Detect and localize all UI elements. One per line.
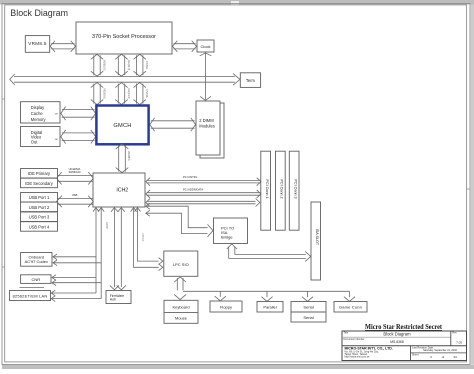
svg-text:266MB/S: 266MB/S bbox=[127, 151, 129, 161]
svg-text:VRM8.5: VRM8.5 bbox=[28, 41, 47, 46]
svg-text:370-Pin Socket Processor: 370-Pin Socket Processor bbox=[92, 34, 156, 40]
svg-text:Title: Title bbox=[344, 332, 349, 335]
svg-text:HA[31:3]: HA[31:3] bbox=[127, 89, 131, 99]
svg-text:CNTRL: CNTRL bbox=[145, 89, 149, 98]
svg-text:USB Port 3: USB Port 3 bbox=[29, 215, 50, 220]
svg-text:7.05: 7.05 bbox=[456, 340, 462, 344]
svg-text:2 DIMM: 2 DIMM bbox=[199, 118, 214, 123]
svg-text:ISA SLOT: ISA SLOT bbox=[315, 229, 319, 246]
svg-text:MS-6368: MS-6368 bbox=[390, 340, 404, 344]
svg-text:Modules: Modules bbox=[199, 124, 214, 129]
svg-text:of: of bbox=[442, 355, 445, 359]
svg-text:PCI Conn 2: PCI Conn 2 bbox=[280, 179, 284, 198]
svg-text:IDE Primary: IDE Primary bbox=[28, 171, 51, 176]
svg-text:http://www.msi.com.tw: http://www.msi.com.tw bbox=[345, 356, 370, 359]
svg-text:IDE Secondary: IDE Secondary bbox=[25, 181, 53, 186]
svg-text:Saturday, September 21, 2002: Saturday, September 21, 2002 bbox=[423, 349, 457, 352]
svg-text:82562ET/EM LAN: 82562ET/EM LAN bbox=[12, 293, 47, 298]
svg-text:AC'97 Codec: AC'97 Codec bbox=[25, 259, 48, 264]
svg-text:ICH2: ICH2 bbox=[116, 188, 128, 194]
svg-text:1M: 1M bbox=[55, 114, 58, 116]
svg-text:Parallel: Parallel bbox=[263, 305, 276, 310]
svg-text:Out: Out bbox=[31, 139, 38, 144]
svg-text:HA[31:3]: HA[31:3] bbox=[127, 60, 131, 70]
svg-text:Mouse: Mouse bbox=[175, 316, 188, 321]
svg-text:LPC SIO: LPC SIO bbox=[173, 262, 189, 267]
svg-text:Memory: Memory bbox=[31, 117, 47, 122]
svg-text:Block Diagram: Block Diagram bbox=[383, 332, 411, 337]
svg-text:CNR: CNR bbox=[31, 277, 40, 282]
svg-text:Block Diagram: Block Diagram bbox=[10, 8, 68, 18]
svg-text:PCI CNTRL: PCI CNTRL bbox=[183, 175, 198, 179]
svg-text:Sheet: Sheet bbox=[412, 353, 419, 356]
svg-text:LPC I/F: LPC I/F bbox=[141, 233, 144, 242]
svg-text:1M: 1M bbox=[55, 139, 58, 141]
svg-text:PCI Conn 3: PCI Conn 3 bbox=[293, 179, 297, 198]
svg-text:Keyboard: Keyboard bbox=[172, 304, 189, 309]
svg-text:PCI Conn 1: PCI Conn 1 bbox=[265, 179, 269, 198]
svg-text:Display: Display bbox=[31, 105, 45, 110]
svg-text:Game Conn: Game Conn bbox=[339, 305, 362, 310]
svg-text:PCI ADDR/DATA: PCI ADDR/DATA bbox=[183, 188, 203, 192]
svg-text:33/66/100: 33/66/100 bbox=[69, 170, 81, 174]
svg-text:Floppy: Floppy bbox=[220, 304, 232, 309]
svg-text:Bridge: Bridge bbox=[221, 235, 233, 240]
svg-text:Clock: Clock bbox=[200, 44, 210, 49]
svg-text:USB: USB bbox=[72, 193, 78, 197]
svg-text:Serial: Serial bbox=[303, 305, 313, 310]
svg-text:Document Number: Document Number bbox=[344, 338, 365, 341]
svg-text:Cache: Cache bbox=[31, 111, 44, 116]
svg-text:USB Port 1: USB Port 1 bbox=[29, 195, 50, 200]
svg-text:USB Port 2: USB Port 2 bbox=[29, 205, 50, 210]
svg-text:34: 34 bbox=[453, 355, 457, 359]
svg-text:HD[63:0]: HD[63:0] bbox=[102, 60, 106, 71]
svg-text:Term: Term bbox=[246, 78, 256, 83]
svg-text:AC'97: AC'97 bbox=[105, 222, 108, 229]
svg-text:Hub: Hub bbox=[110, 298, 116, 302]
svg-text:GMCH: GMCH bbox=[113, 123, 131, 129]
svg-text:Rev: Rev bbox=[452, 332, 457, 335]
svg-text:HD[63:0]: HD[63:0] bbox=[102, 88, 106, 99]
svg-text:CNTRL: CNTRL bbox=[145, 61, 149, 70]
svg-text:USB Port 4: USB Port 4 bbox=[29, 224, 50, 229]
svg-text:Serial: Serial bbox=[303, 315, 313, 320]
